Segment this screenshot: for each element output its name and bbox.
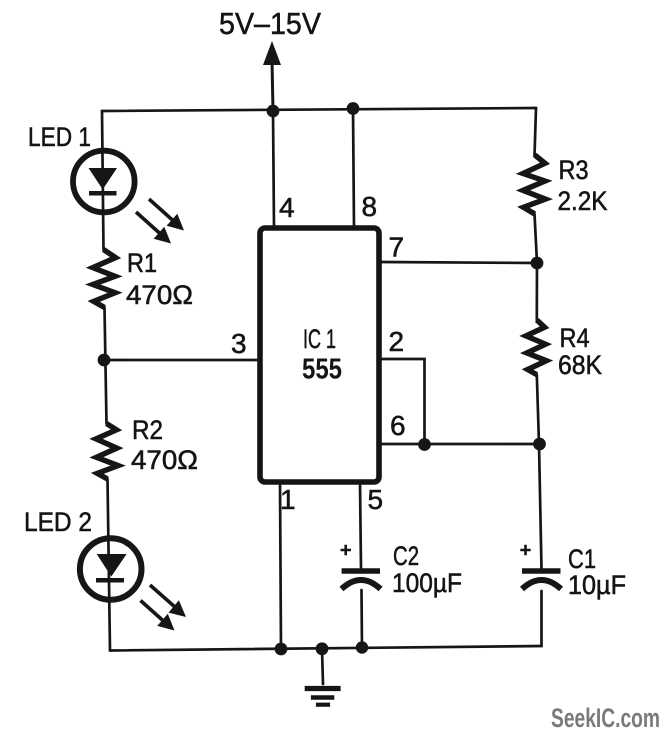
wire ground stub [322, 649, 323, 684]
node pin8-top [347, 102, 360, 115]
svg-text:100µF: 100µF [392, 568, 462, 598]
wire pin 2 [380, 359, 425, 444]
svg-text:R2: R2 [132, 415, 163, 445]
capacitor C2 [341, 545, 381, 589]
svg-text:7: 7 [389, 232, 405, 263]
LED1 light arrows [136, 199, 184, 244]
wire left rail lower (through LED2) [108, 479, 111, 651]
ground [305, 689, 341, 705]
wire left rail upper (through LED1) [102, 111, 104, 250]
wire right rail pin6 node to C1 [539, 444, 542, 569]
svg-text:470Ω: 470Ω [126, 280, 193, 310]
wire right rail upper (top wire to R3) [535, 108, 537, 156]
node top-power [267, 105, 280, 118]
svg-text:R1: R1 [127, 248, 157, 278]
LED LED1 [73, 151, 135, 213]
resistor R2 [96, 424, 118, 480]
svg-text:470Ω: 470Ω [131, 445, 198, 475]
svg-text:5: 5 [368, 484, 384, 515]
wire pin 1 drop [280, 483, 281, 649]
op-amp U1 : IC1 555 timer box [260, 228, 379, 482]
wire right rail pin7 node to R4 [535, 263, 538, 320]
node pin1-bottom [275, 643, 288, 656]
wire pin 4 drop [273, 111, 274, 227]
svg-text:SeekIC.com: SeekIC.com [551, 703, 660, 733]
svg-text:C2: C2 [393, 541, 419, 571]
wire right rail R4 to pin6 node [537, 375, 539, 444]
svg-text:8: 8 [362, 191, 378, 222]
wire C1 bottom to bottom rail [540, 591, 543, 646]
svg-text:6: 6 [390, 410, 406, 441]
svg-text:555: 555 [302, 354, 342, 386]
svg-text:R3: R3 [559, 155, 589, 185]
svg-text:LED 1: LED 1 [28, 122, 91, 152]
wire pin 7 [380, 262, 537, 263]
LED2 light arrows [141, 585, 187, 631]
svg-text:4: 4 [279, 192, 295, 223]
svg-text:10µF: 10µF [568, 570, 626, 600]
svg-text:2.2K: 2.2K [558, 186, 608, 216]
node pin3-left [98, 354, 111, 367]
junction node dots [98, 102, 546, 655]
resistor R3 [523, 155, 545, 214]
svg-text:5V–15V: 5V–15V [219, 6, 321, 41]
resistor R1 [93, 250, 116, 308]
wire pin 5 to C2 [360, 483, 361, 568]
wire bottom rail [110, 646, 542, 651]
svg-text:IC 1: IC 1 [303, 324, 336, 354]
svg-text:2: 2 [389, 326, 405, 357]
wire top power rail [102, 108, 536, 111]
node pin7-right [531, 257, 544, 270]
node ground-bottom [316, 642, 329, 655]
node C2-bottom [356, 641, 368, 653]
node pin2-pin6 [418, 438, 431, 451]
resistor R4 [526, 320, 547, 375]
node pin6-right [533, 438, 546, 451]
capacitor C1 [520, 545, 561, 589]
wire left rail middle (R1 to R2) [105, 308, 107, 424]
svg-text:R4: R4 [560, 323, 590, 353]
LED LED2 [80, 538, 142, 600]
svg-text:3: 3 [231, 328, 247, 359]
svg-text:68K: 68K [558, 350, 602, 380]
svg-text:LED 2: LED 2 [24, 507, 92, 537]
wire pin 8 drop [353, 108, 354, 227]
svg-text:1: 1 [280, 484, 296, 515]
wire pin 6 [380, 443, 539, 446]
wire pin 3 [103, 359, 259, 362]
power supply arrow [263, 41, 281, 111]
wire C2 bottom to bottom rail [360, 590, 363, 648]
wire right rail R3 to pin7 node [535, 214, 538, 263]
